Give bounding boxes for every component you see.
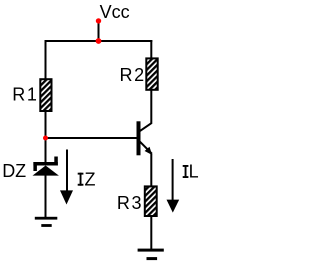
- svg-text:R1: R1: [12, 84, 38, 104]
- svg-text:R3: R3: [117, 193, 143, 213]
- svg-text:L: L: [189, 162, 199, 182]
- svg-text:Vcc: Vcc: [100, 2, 130, 22]
- svg-text:R2: R2: [120, 65, 146, 85]
- svg-text:Z: Z: [85, 170, 96, 190]
- svg-text:DZ: DZ: [2, 161, 26, 181]
